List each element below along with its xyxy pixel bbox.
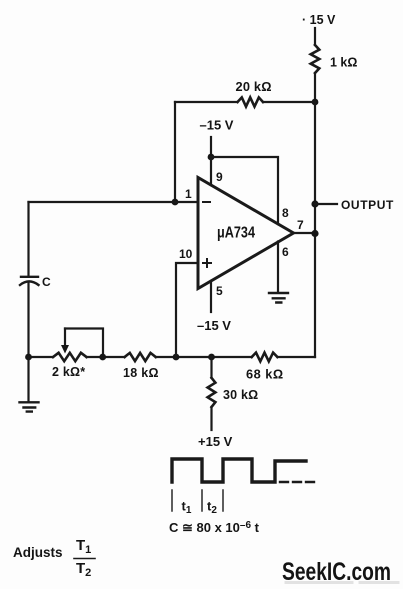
svg-text:7: 7 <box>297 218 304 232</box>
svg-text:Adjusts: Adjusts <box>13 545 63 560</box>
wire pin 1 input <box>29 201 199 203</box>
power -15V lower label <box>197 318 231 333</box>
power -15V upper label <box>200 118 234 133</box>
wire 1k to node <box>314 73 316 102</box>
wire node to pin 8 <box>211 157 278 224</box>
svg-text:+15 V: +15 V <box>198 434 233 449</box>
op-amp plus input symbol <box>203 259 211 267</box>
potentiometer wiper arrow <box>64 329 66 348</box>
label t1 <box>182 499 192 517</box>
wire 30k bottom <box>210 407 212 430</box>
wire 30k top <box>210 357 212 378</box>
wire wiper loop <box>65 329 103 358</box>
wire OUTPUT stub <box>315 203 337 205</box>
svg-text:μA734: μA734 <box>217 225 255 242</box>
right rail wire <box>314 102 316 357</box>
svg-text:SeekIC.com: SeekIC.com <box>282 558 391 586</box>
svg-text:18 kΩ: 18 kΩ <box>123 366 159 380</box>
svg-text:T2: T2 <box>76 560 91 579</box>
svg-text:6: 6 <box>282 245 289 259</box>
bottom rail wire <box>29 356 316 358</box>
svg-text:20 kΩ: 20 kΩ <box>236 79 272 94</box>
node pin10 junction <box>173 354 180 361</box>
node pin7 junction <box>311 230 318 237</box>
power +15V top label <box>302 13 336 27</box>
waveform square wave <box>172 459 306 482</box>
svg-text:9: 9 <box>216 170 223 184</box>
node junction top-right <box>312 99 319 106</box>
ground left <box>27 357 29 402</box>
waveform dashed continuation <box>280 481 315 483</box>
node OUTPUT junction <box>311 200 318 207</box>
op-amp minus input symbol <box>203 201 210 203</box>
svg-text:· 15 V: · 15 V <box>302 13 336 27</box>
wire pin 10 <box>176 263 198 357</box>
svg-text:1 kΩ: 1 kΩ <box>330 56 357 70</box>
svg-text:30 kΩ: 30 kΩ <box>223 388 258 402</box>
resistor 20 kΩ <box>238 97 264 106</box>
svg-text:–15 V: –15 V <box>197 318 231 333</box>
pin 9 label <box>216 170 223 184</box>
left rail wire upper <box>27 202 29 277</box>
node ground-left junction <box>25 354 32 361</box>
wire -15V to node <box>210 137 212 157</box>
resistor 1 kΩ <box>311 45 320 73</box>
svg-text:8: 8 <box>282 206 289 220</box>
OUTPUT label <box>341 198 394 212</box>
watermark shadow artifact <box>286 581 398 584</box>
svg-text:68 kΩ: 68 kΩ <box>246 367 284 382</box>
wire pin 5 <box>210 281 212 312</box>
svg-text:OUTPUT: OUTPUT <box>341 198 394 212</box>
svg-text:C: C <box>42 275 51 289</box>
power +15V bottom label <box>198 434 233 449</box>
left rail wire lower <box>27 282 29 357</box>
wire pin 6 <box>277 242 279 293</box>
formula C = 80 x 10^-6 t <box>169 520 260 535</box>
wire pin 7 output <box>294 232 316 234</box>
ground right <box>269 293 288 303</box>
node wiper junction <box>99 354 106 361</box>
op-amp U1 triangle <box>198 178 294 289</box>
pin 7 label <box>297 218 304 232</box>
resistor 30 kΩ <box>208 378 216 407</box>
pin 10 label <box>179 247 193 261</box>
svg-text:5: 5 <box>216 284 223 298</box>
svg-text:–15 V: –15 V <box>200 118 234 133</box>
caption Adjusts T1/T2 <box>13 545 63 560</box>
svg-text:2 kΩ*: 2 kΩ* <box>52 365 85 379</box>
label t2 <box>207 499 217 517</box>
node pin9 junction <box>208 154 215 161</box>
wire feedback horizontal <box>175 101 315 103</box>
resistor 18 kΩ <box>125 353 156 361</box>
node 30k junction <box>208 354 215 361</box>
resistor 68 kΩ <box>252 353 278 362</box>
pin 5 label <box>216 284 223 298</box>
svg-text:1: 1 <box>185 187 192 201</box>
waveform tick marks <box>172 490 223 511</box>
svg-text:T1: T1 <box>76 537 91 556</box>
watermark SeekIC.com <box>282 558 391 586</box>
pin 6 label <box>282 245 289 259</box>
wire pin 9 <box>210 157 212 185</box>
svg-text:10: 10 <box>179 247 193 261</box>
wire +15V to resistor 1k <box>314 28 316 45</box>
svg-text:t2: t2 <box>207 499 217 517</box>
svg-text:t1: t1 <box>182 499 192 517</box>
svg-text:C ≅ 80 x 10–6 t: C ≅ 80 x 10–6 t <box>169 520 260 535</box>
node pin1 junction <box>172 199 179 206</box>
potentiometer 2 kΩ <box>53 353 87 361</box>
pin 8 label <box>282 206 289 220</box>
wire feedback vertical <box>174 102 176 202</box>
capacitor C <box>20 277 39 285</box>
pin 1 label <box>185 187 192 201</box>
